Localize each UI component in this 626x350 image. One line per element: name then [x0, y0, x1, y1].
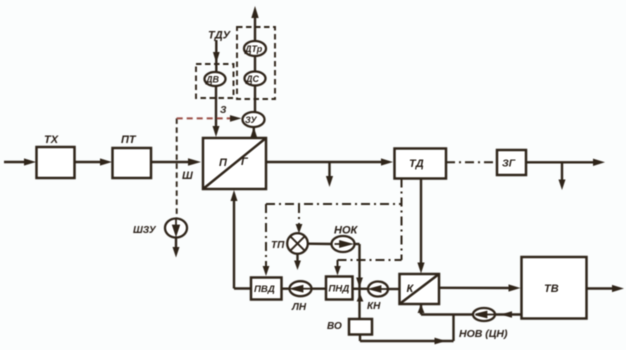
- svg-text:ТП: ТП: [271, 240, 285, 251]
- svg-text:ТД: ТД: [409, 158, 424, 170]
- svg-text:ДТр: ДТр: [244, 44, 263, 54]
- svg-text:З: З: [220, 105, 227, 116]
- svg-text:ЛН: ЛН: [291, 302, 307, 313]
- svg-text:ТДУ: ТДУ: [208, 30, 232, 42]
- svg-text:ПТ: ПТ: [121, 134, 137, 146]
- svg-text:ТХ: ТХ: [44, 134, 59, 146]
- svg-text:КН: КН: [367, 301, 381, 312]
- svg-text:ПНД: ПНД: [329, 284, 350, 295]
- svg-text:НОК: НОК: [334, 225, 359, 237]
- svg-text:ЗГ: ЗГ: [502, 158, 516, 170]
- svg-text:ВО: ВО: [327, 321, 342, 332]
- svg-text:ШЗУ: ШЗУ: [133, 225, 157, 236]
- svg-text:ЗУ: ЗУ: [245, 115, 257, 125]
- svg-text:ПВД: ПВД: [254, 284, 275, 295]
- svg-text:ТВ: ТВ: [544, 283, 559, 295]
- svg-text:П: П: [219, 157, 228, 169]
- svg-text:ДВ: ДВ: [205, 75, 219, 85]
- svg-text:НОВ (ЦН): НОВ (ЦН): [459, 328, 508, 340]
- svg-text:Ш: Ш: [182, 170, 193, 182]
- svg-text:ДС: ДС: [245, 74, 259, 84]
